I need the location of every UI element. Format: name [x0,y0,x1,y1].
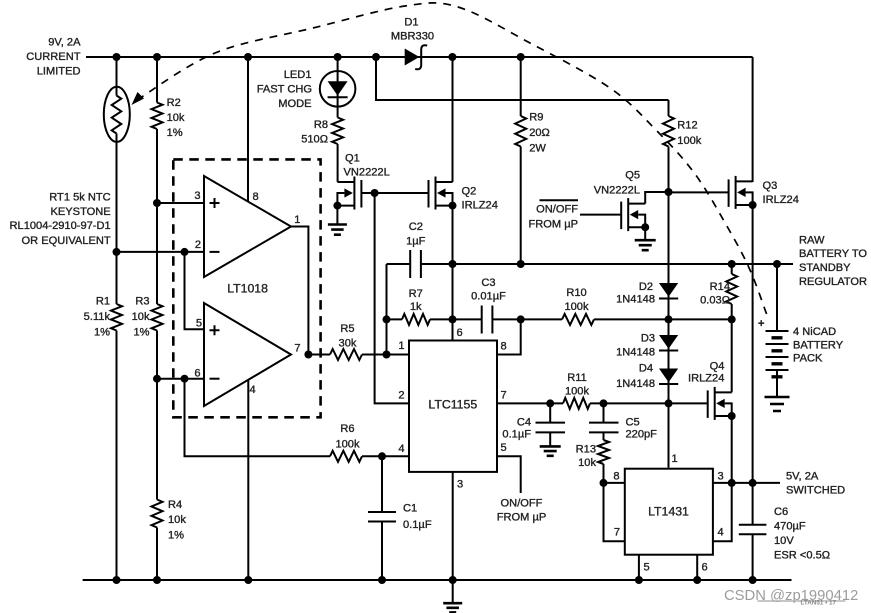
svg-text:0.01µF: 0.01µF [471,291,506,303]
svg-text:1%: 1% [167,127,183,139]
svg-text:D2: D2 [639,281,653,293]
svg-text:0.1µF: 0.1µF [502,429,531,441]
svg-text:C4: C4 [517,417,531,429]
svg-text:LT1431: LT1431 [648,505,689,519]
wire Q1 source to ground [336,206,338,225]
node: top rail junction op-amp supply [244,53,252,61]
svg-text:RL1004-2910-97-D1: RL1004-2910-97-D1 [10,220,111,232]
svg-text:5: 5 [501,442,507,454]
svg-text:510Ω: 510Ω [301,134,328,146]
svg-text:3: 3 [457,479,463,491]
svg-text:MODE: MODE [278,98,311,110]
node: R6/C1/pin4 junction [378,452,386,460]
svg-text:IRLZ24: IRLZ24 [462,199,498,211]
wire op-amp1 pin 8 supply [247,57,249,202]
svg-text:7: 7 [294,343,300,355]
ground below rail at LTC1155 pin 3 [452,580,454,603]
op-amp U1A LT1018 top comparator [204,176,291,277]
svg-text:SWITCHED: SWITCHED [786,484,845,496]
node: bottom rail op-amp pin4 [244,576,252,584]
wire ON/OFF input to Q5 gate [580,214,621,216]
svg-text:VN2222L: VN2222L [344,166,390,178]
wire pin 8 lead [604,482,625,484]
svg-text:R12: R12 [677,120,697,132]
node: top rail junction RT1 [113,53,121,61]
node: R10 right / D2-D3 junction [665,315,673,323]
svg-text:2: 2 [398,390,404,402]
ground at Q5 source [635,240,656,250]
svg-text:LT1018: LT1018 [227,282,268,296]
node: Q1/Q2 gate junction [371,189,379,197]
svg-text:R13: R13 [576,444,596,456]
svg-text:BATTERY: BATTERY [793,339,844,351]
svg-text:10k: 10k [168,514,186,526]
wire op-amp2 pin 4 to ground rail [247,380,249,580]
LED1 diode triangle [328,81,348,95]
svg-text:D1: D1 [404,17,418,29]
svg-text:8: 8 [613,471,619,483]
wire C2 left / R7 riser [386,264,388,355]
thermistor RT1 ellipse [104,87,130,142]
svg-text:1%: 1% [133,327,149,339]
svg-text:1N4148: 1N4148 [616,347,655,359]
svg-text:RT1 5k NTC: RT1 5k NTC [49,192,110,204]
svg-text:30k: 30k [339,338,357,350]
svg-text:IRLZ24: IRLZ24 [763,194,799,206]
transistor Q5 VN2222L [620,202,622,230]
svg-text:220pF: 220pF [626,429,658,441]
svg-text:C6: C6 [774,506,788,518]
wire gate node down to LTC1155 pin 2 [375,193,409,403]
resistor R10 [562,314,594,325]
resistor R2 [152,103,163,129]
svg-text:1k: 1k [410,301,422,313]
node: top rail junction R9 [517,53,525,61]
node: top rail junction R2 [153,53,161,61]
svg-text:5V, 2A: 5V, 2A [786,471,819,483]
svg-text:LTC1155: LTC1155 [428,398,477,412]
wire R11 right lead to Q4 gate [590,402,708,404]
svg-text:LIMITED: LIMITED [37,66,81,78]
svg-text:8: 8 [501,341,507,353]
svg-text:LTAN51 • 17: LTAN51 • 17 [801,599,837,606]
node: R9 bottom junction [517,260,525,268]
capacitor C2 1uF [387,250,453,278]
svg-text:6: 6 [194,368,200,380]
ground at Q1 source [328,225,347,235]
svg-text:20Ω: 20Ω [529,127,550,139]
node: pin6/R6 junction [181,375,189,383]
svg-text:LED1: LED1 [284,69,312,81]
svg-text:100k: 100k [677,135,702,147]
svg-text:7: 7 [614,527,620,539]
battery 4 cell stack [766,331,789,370]
node: pin2/pin5 junction [181,248,189,256]
wire op-amp1 output to comparator bus [291,227,308,355]
op-amp U1B LT1018 bottom comparator [204,303,291,406]
wire R12 node to Q3 gate [669,191,729,193]
wire R10 leads [521,318,669,320]
resistor R1 [111,304,122,330]
diode D2 1N4148 [659,283,678,297]
wire LTC1155 pin 7 to R11 [497,402,563,404]
svg-text:2: 2 [195,239,201,251]
LED1 circle [320,71,356,107]
wire pre-D1 branch to R12 [376,57,669,100]
resistor R11 [563,398,590,409]
svg-text:6: 6 [457,327,463,339]
wire Q4 source down to 5V row [731,416,733,483]
wire Q5 source to ground [644,227,646,240]
transistor Q4 IRLZ24 [707,390,709,418]
node: R2/R3 junction to op-amp pin3 [153,199,161,207]
wire Q2 source down to pin6 column [452,206,454,341]
svg-text:0.03Ω: 0.03Ω [700,295,730,307]
svg-text:BATTERY TO: BATTERY TO [799,248,867,260]
wire RAW battery row [453,263,794,265]
wire RT1/R1 column [116,57,118,580]
svg-text:C1: C1 [403,503,417,515]
node: D4/pin1/Q4 gate junction [665,399,673,407]
node: R7 right / C3 / pin6 junction [449,315,457,323]
svg-text:ESR <0.5Ω: ESR <0.5Ω [774,550,830,562]
svg-text:R4: R4 [168,499,182,511]
svg-text:4: 4 [250,384,256,396]
node: bottom rail C6 [749,576,757,584]
svg-text:4: 4 [718,527,724,539]
wire LTC1155 pin 3 to ground rail [452,472,454,580]
svg-text:Q1: Q1 [345,153,360,165]
svg-text:ON/OFF: ON/OFF [501,498,543,510]
svg-text:+: + [758,318,765,330]
node: R14 bottom junction [728,315,736,323]
svg-text:7: 7 [501,390,507,402]
svg-text:1N4148: 1N4148 [616,294,655,306]
svg-text:R8: R8 [314,119,328,131]
svg-text:PACK: PACK [793,353,823,365]
node: R13/pin8 junction [600,479,608,487]
op-amp2 minus sign [210,378,220,380]
svg-text:1µF: 1µF [406,236,426,248]
svg-text:D4: D4 [639,363,653,375]
svg-text:6: 6 [702,562,708,574]
node: comparator outputs junction [304,351,312,359]
capacitor C3 0.01uF [453,306,521,334]
wire R14 bottom node down to Q4 drain [731,319,733,392]
svg-text:1%: 1% [94,327,110,339]
node: comparator bus to pin1 junction [383,351,391,359]
node: top rail junction pre-D1 branch [372,53,380,61]
svg-text:10k: 10k [132,311,150,323]
svg-text:9V, 2A: 9V, 2A [48,37,81,49]
node: bottom rail LT1431 pin5 [635,576,643,584]
svg-text:STANDBY: STANDBY [799,262,851,274]
svg-text:10k: 10k [578,457,596,469]
resistor R3 [152,304,163,330]
wire op-amp1 pin 3 input [157,202,204,204]
transistor Q2 IRLZ24 [428,180,430,208]
wire R14 bottom segment [669,318,732,320]
node: Q3 source/C6 junction [749,479,757,487]
resistor R4 [152,500,163,528]
svg-text:1: 1 [294,214,300,226]
wire R9 column [520,57,522,264]
svg-text:10k: 10k [167,112,185,124]
wire LT1431 pin 4 up to 5V row [713,483,732,541]
wire Q3 source down to 5V row [752,205,754,483]
svg-text:0.1µF: 0.1µF [403,519,432,531]
wire LTC1155 pin 5 to uP [497,456,521,493]
resistor R12 [663,116,674,146]
dashed arc battery thermal coupling to RT1 [137,3,768,318]
svg-text:R7: R7 [409,288,423,300]
wire ground bottom rail [83,579,792,581]
node: RAW/battery junction [773,260,781,268]
node: R3/R4 junction to op-amp pin6 [153,375,161,383]
capacitor C4 0.1uF [536,403,566,446]
svg-text:5: 5 [196,318,202,330]
svg-text:FROM µP: FROM µP [497,511,547,523]
svg-text:R1: R1 [96,296,110,308]
svg-text:R10: R10 [566,287,586,299]
node: RT1/R1 junction to op-amp pin2 [113,248,121,256]
svg-text:RAW: RAW [799,234,825,246]
node: C2/Q2 source/RAW junction [449,260,457,268]
svg-text:MBR330: MBR330 [391,31,434,43]
svg-text:D3: D3 [641,333,655,345]
resistor R14 [726,274,737,304]
watermark underline [758,600,846,602]
svg-text:1%: 1% [168,530,184,542]
capacitor C5 220pF [589,403,619,440]
arrowhead pointing to RT1 [132,92,145,105]
svg-text:1: 1 [672,453,678,465]
wire pin6 node down and right through R6 to pin 4 [185,379,410,457]
wire battery top lead [776,264,778,331]
svg-text:10V: 10V [774,535,794,547]
wire LT1431 pin 3 output row to 5V [713,482,780,484]
wire LED/R8 column [337,57,339,182]
wire Q5 drain up to D column [645,192,668,204]
svg-text:8: 8 [253,191,259,203]
LED1 cathode bar [328,96,348,98]
node: C5/R13 junction [600,399,608,407]
svg-text:CURRENT: CURRENT [26,51,80,63]
svg-text:470µF: 470µF [774,521,806,533]
svg-text:VN2222L: VN2222L [594,185,640,197]
svg-text:ON/OFF: ON/OFF [536,204,578,216]
wire LT1431 pin 5 to ground rail [638,555,640,580]
capacitor C1 0.1uF [368,456,396,580]
svg-text:2W: 2W [529,143,546,155]
svg-text:R9: R9 [529,112,543,124]
svg-text:REGULATOR: REGULATOR [799,276,867,288]
resistor R5 [330,349,362,360]
svg-text:Q3: Q3 [763,180,778,192]
svg-text:FAST CHG: FAST CHG [257,84,312,96]
wire R7 leads [387,318,453,320]
svg-text:FROM µP: FROM µP [528,218,578,230]
wire LT1431 pin 6 to ground rail [696,555,698,580]
wire Q1 gate to Q2 gate [361,192,428,194]
wire op-amp1 pin 2 input [117,251,205,253]
svg-text:R3: R3 [135,296,149,308]
diode D4 1N4148 [659,369,678,383]
svg-text:5.11k: 5.11k [84,311,111,323]
wire pin7 node to R5 to pin 1 [308,354,409,356]
svg-text:C3: C3 [481,277,495,289]
svg-text:100k: 100k [564,301,589,313]
node: C4 junction [546,399,554,407]
resistor R8 [332,118,343,145]
IC U3 LT1431 box [625,469,713,555]
wire Q2 drain to top rail [452,57,454,182]
svg-text:R6: R6 [340,423,354,435]
node: Q5 drain junction on D column [665,188,673,196]
node: bottom rail R4 [153,576,161,584]
node: bottom rail RT1/R1 [113,576,121,584]
svg-text:R5: R5 [340,323,354,335]
node: bottom rail LT1431 pin6 [693,576,701,584]
svg-text:1N4148: 1N4148 [616,378,655,390]
node: top rail junction Q2 drain [448,53,456,61]
node: RAW/R14 junction [728,260,736,268]
svg-text:IRLZ24: IRLZ24 [688,373,724,385]
op-amp2 plus sign [210,325,220,335]
node: C3/R10/pin8 junction [517,315,525,323]
svg-text:C2: C2 [409,221,423,233]
wire op-amp2 pin 5 input from pin2 node [185,252,205,329]
svg-text:100k: 100k [335,439,360,451]
wire C3/R10 node down to pin 8 [497,319,521,354]
resistor R6 [330,451,362,462]
svg-text:OR EQUIVALENT: OR EQUIVALENT [22,235,111,247]
node: bottom rail LTC1155 pin3 [449,576,457,584]
resistor R9 [515,116,526,146]
svg-text:Q4: Q4 [710,361,725,373]
resistor R13 [598,440,609,464]
node: top rail junction LED1 [334,53,342,61]
transistor Q3 IRLZ24 [728,179,730,207]
node: bottom rail C1 [378,576,386,584]
svg-text:3: 3 [718,471,724,483]
ground at battery [765,397,790,411]
svg-text:4 NiCAD: 4 NiCAD [793,326,836,338]
wire R2/R3/R4 column [156,57,158,580]
thermistor RT1 zigzag [112,96,122,134]
resistor R7 [402,314,430,325]
svg-text:4: 4 [398,443,404,455]
svg-text:Q5: Q5 [625,170,640,182]
svg-text:C5: C5 [626,417,640,429]
diode D3 1N4148 [659,335,678,349]
wire R12/diode column [668,100,670,468]
op-amp1 plus sign [210,198,220,208]
wire op-amp2 pin 6 input [157,378,204,380]
ground at C4 [540,446,561,455]
node: Q4 source/pin4 junction [728,479,736,487]
IC U2 LTC1155 box [409,341,497,472]
node: R7 left junction [383,315,391,323]
op-amp1 minus sign [210,251,220,253]
capacitor C6 470uF [739,483,767,580]
svg-text:R2: R2 [167,97,181,109]
svg-text:3: 3 [194,190,200,202]
svg-text:R11: R11 [567,372,587,384]
svg-text:100k: 100k [565,386,590,398]
wire R14 column [731,264,733,319]
svg-text:Q2: Q2 [462,186,477,198]
wire Q3 drain drop from top rail [752,57,754,182]
svg-text:R14: R14 [710,281,730,293]
dashed box around LT1018 [173,159,320,417]
svg-text:1: 1 [398,340,404,352]
transistor Q1 VN2222L (mirrored nmos) [360,180,362,208]
svg-text:KEYSTONE: KEYSTONE [50,206,110,218]
svg-text:5: 5 [644,562,650,574]
wire battery bottom lead [776,371,778,398]
wire R13 bottom to pin8/pin7 [604,464,625,541]
wire 9V input top rail [86,56,753,58]
diode D1 MBR330 schottky [405,49,420,66]
